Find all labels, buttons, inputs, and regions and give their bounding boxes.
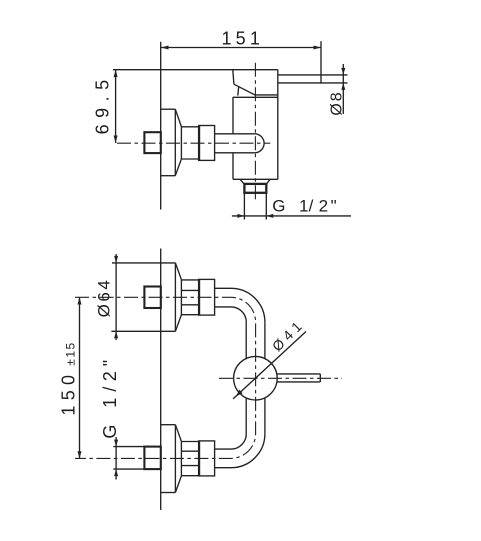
outlet thread G 1/2 (bold)	[244, 184, 266, 193]
vertical center line (upper view)	[254, 63, 256, 203]
supply fitting square (upper view)	[144, 132, 160, 153]
value label G 1/2" (upper view)	[272, 197, 336, 216]
svg-text:Ø8: Ø8	[328, 90, 345, 115]
top extension line + body top edge	[113, 69, 278, 71]
mixer body circle Ø41	[234, 356, 278, 400]
extension lines for G 1/2 dim (lower view)	[113, 446, 144, 448]
svg-text:±15: ±15	[64, 341, 78, 365]
svg-text:69.5: 69.5	[93, 73, 113, 134]
top escutcheon cone	[175, 263, 181, 280]
outlet pipe / extension lines	[243, 193, 245, 220]
svg-text:G: G	[272, 197, 285, 216]
top escutcheon edge + extension (lower view)	[112, 262, 175, 264]
bottom escutcheon (lower view)	[161, 424, 175, 426]
horizontal center line through circle	[219, 377, 342, 379]
svg-text:2: 2	[100, 371, 120, 381]
svg-text:1: 1	[299, 197, 308, 216]
top collar cylinder	[180, 280, 182, 315]
svg-text:1: 1	[100, 398, 120, 408]
dimension Ø8 bottom arrow	[341, 83, 345, 90]
check valve tube	[215, 133, 255, 135]
supply fitting square top (lower view)	[144, 287, 160, 309]
connection nut (upper view)	[199, 126, 215, 161]
handle dome left edge	[233, 70, 234, 85]
handle dome notch line	[237, 87, 240, 96]
leader line Ø41	[233, 332, 306, 399]
svg-text:151: 151	[221, 29, 264, 49]
rod extension lines for dim Ø8	[321, 74, 348, 76]
handle lever rod bottom line	[278, 82, 321, 84]
Ø64 top arrow	[114, 256, 118, 263]
handle dome chamfer	[234, 84, 256, 95]
top escutcheon face	[174, 263, 176, 331]
dimension 151 line	[161, 47, 321, 49]
G 1/2 left arrow	[237, 214, 244, 218]
dimension 69.5 bottom arrow	[114, 136, 118, 144]
value label G 1/2" (lower view)	[100, 360, 120, 439]
dimension 69.5 line	[115, 70, 117, 143]
G 1/2 right arrow	[266, 214, 273, 218]
bottom inlet tube and bend	[215, 448, 231, 450]
leader arrow	[236, 390, 243, 397]
bottom connection nut (lower view)	[199, 441, 215, 476]
dimension 151 right arrow	[314, 46, 322, 50]
wire wall line (lower view)	[160, 249, 162, 511]
dimension Ø8 top arrow	[341, 68, 345, 75]
svg-text:G: G	[100, 425, 120, 439]
escutcheon collar cylinder	[180, 127, 182, 159]
bottom collar cylinder	[180, 441, 182, 476]
svg-text:/: /	[100, 387, 120, 392]
svg-text:150: 150	[59, 370, 79, 416]
svg-text:": "	[331, 197, 337, 216]
outlet flange chamfers	[240, 179, 244, 184]
wire wall line (upper view)	[160, 42, 162, 210]
handle dome bottom edge	[255, 94, 277, 96]
horizontal center line (upper view)	[117, 142, 270, 144]
G 1/2 bottom arrow (lower)	[114, 469, 118, 476]
dimension G 1/2 line (upper view)	[232, 215, 351, 217]
handle lever rod top line	[278, 74, 321, 76]
supply fitting square bottom (lower view)	[144, 447, 160, 470]
dimension 69.5 top arrow	[114, 70, 118, 78]
dimension Ø8 line	[342, 64, 344, 114]
G 1/2 top arrow (lower)	[114, 440, 118, 447]
dimension 150 line	[79, 297, 81, 458]
dimension 150 bottom arrow	[78, 451, 82, 458]
lever rod (lower view)	[277, 373, 320, 375]
top inlet tube and bend	[215, 287, 231, 289]
escutcheon (upper view)	[161, 108, 175, 110]
svg-text:/: /	[309, 197, 314, 216]
dimension 151 right extension line	[320, 41, 322, 83]
valve body outline	[233, 96, 278, 98]
dimension 150 top arrow	[78, 297, 82, 304]
dimension G 1/2 line (lower view)	[115, 437, 117, 480]
dimension 151 left arrow	[161, 46, 169, 50]
vertical tube lines	[245, 322, 247, 358]
svg-text:2: 2	[319, 197, 328, 216]
dimension Ø64 line	[115, 254, 117, 340]
top connection nut (lower view)	[199, 279, 215, 315]
svg-text:": "	[100, 360, 120, 366]
center line top inlet path	[75, 297, 256, 458]
Ø64 bottom arrow	[114, 331, 118, 338]
